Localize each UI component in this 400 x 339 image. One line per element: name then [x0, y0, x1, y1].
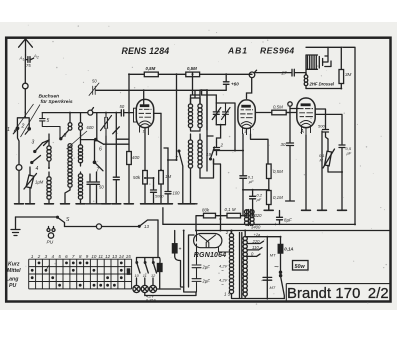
- switch 9: [61, 131, 69, 139]
- svg-text:5000: 5000: [155, 195, 164, 199]
- svg-text:15: 15: [126, 254, 132, 259]
- dial lamp b: [141, 285, 148, 292]
- svg-text:75: 75: [26, 63, 31, 68]
- capacitor 5000: [149, 186, 158, 204]
- svg-text:2: 2: [37, 254, 41, 259]
- svg-text:Buchsen: Buchsen: [39, 94, 60, 100]
- wire V3 plate right: [316, 114, 342, 144]
- matrix col15 dark box: [127, 268, 131, 275]
- svg-text:für Sperrkreis: für Sperrkreis: [41, 99, 73, 105]
- resistor 0.5M horizontal AB1: [256, 112, 296, 114]
- svg-text:~: ~: [274, 263, 279, 272]
- junction circle grid wire: [88, 110, 93, 115]
- switch 13: [139, 220, 158, 227]
- switch 7 left: [95, 140, 104, 171]
- antenna jack circle: [24, 60, 26, 83]
- svg-text:Kurz: Kurz: [8, 262, 20, 268]
- rectifier heater unit RES964: [306, 47, 331, 74]
- tube V3 legs: [302, 126, 311, 135]
- svg-text:+: +: [274, 222, 277, 228]
- coil L1: [43, 140, 52, 168]
- tube V3 RES964 envelope: [297, 98, 315, 128]
- antenna arrow: [19, 39, 33, 55]
- svg-text:13: 13: [144, 224, 149, 229]
- antenna jack bar: [17, 112, 29, 128]
- fuse 0.1A: [278, 244, 283, 253]
- lamp switch c: [153, 262, 157, 285]
- wire top right bus: [306, 47, 355, 224]
- chassis bars overlay: [15, 204, 347, 211]
- capacitor 2 mid: [214, 142, 220, 155]
- svg-text:~: ~: [221, 282, 224, 287]
- switch S: [57, 217, 65, 227]
- resistor 80k: [204, 213, 216, 218]
- ground stub coil L2: [45, 203, 54, 205]
- wire tube cathode down: [144, 129, 146, 171]
- capacitor 5: [40, 113, 60, 138]
- capacitor 30: [286, 106, 295, 201]
- output transformer 320/3400: [245, 210, 255, 226]
- coil L3: [68, 144, 72, 158]
- svg-text:13: 13: [112, 254, 118, 259]
- wire V2 anode top: [247, 78, 252, 99]
- svg-text:220: 220: [252, 239, 261, 244]
- PU jacks: [49, 227, 54, 229]
- IF coil lower pair left: [188, 134, 192, 204]
- capacitor 50 top trimmer: [89, 83, 99, 96]
- electrolytic plus box: [175, 231, 184, 288]
- lamp bottom bus: [140, 289, 196, 296]
- svg-text:50w: 50w: [295, 264, 306, 270]
- title compartment box: [286, 284, 389, 302]
- schematic border frame: [6, 38, 390, 302]
- svg-text:PU: PU: [9, 283, 16, 289]
- RGN1064 filament X: [200, 235, 216, 248]
- switch matrix grid: [29, 259, 132, 289]
- dial lamp a: [133, 285, 140, 292]
- svg-text:9: 9: [64, 133, 67, 139]
- ground stub 400: [124, 203, 133, 205]
- capacitor 50 left b: [94, 172, 100, 204]
- svg-text:500: 500: [318, 124, 325, 129]
- ground stub L6: [76, 203, 85, 205]
- wire y226: [65, 226, 140, 228]
- wire to ground stub: [15, 170, 24, 203]
- coil L4: [65, 158, 72, 204]
- resistor 0.1M vertical: [267, 191, 272, 205]
- jack ticks: [13, 130, 28, 134]
- svg-text:10: 10: [91, 254, 97, 259]
- svg-text:1: 1: [143, 129, 145, 134]
- resistor 0.5M no2: [186, 72, 200, 77]
- resistor 0.5M vertical: [268, 179, 270, 191]
- pointer 600: [67, 131, 88, 149]
- resistor box lamp: [157, 264, 162, 272]
- pointer lines from Buchsen label: [14, 104, 40, 137]
- tube V2 internals: [240, 110, 253, 127]
- switch 6: [81, 113, 104, 145]
- lamp section top rail: [137, 208, 163, 289]
- jack circle left: [16, 165, 22, 171]
- svg-text:1: 1: [7, 127, 10, 133]
- mini coil 9b: [79, 113, 83, 134]
- tube V1 internals: [139, 109, 152, 126]
- wire y112 grid wire: [42, 112, 133, 114]
- wire IF top: [191, 73, 208, 130]
- svg-text:11: 11: [143, 274, 147, 278]
- capacitor 100: [164, 160, 173, 204]
- matrix dots row PU: [58, 284, 116, 287]
- ground stub 0.1M: [264, 205, 273, 210]
- tube V3 internals: [299, 109, 313, 126]
- ground stub L4: [61, 203, 70, 205]
- variable resistor 0.1M diag: [328, 139, 342, 172]
- mains transformer primary winding: [229, 233, 233, 293]
- svg-text:RES964: RES964: [260, 46, 295, 56]
- wire screen bus: [164, 148, 177, 160]
- wire IF bottom link: [191, 90, 214, 178]
- svg-text:2: 2: [220, 143, 224, 148]
- tube V2 AB1 envelope: [238, 100, 255, 129]
- svg-text:3M: 3M: [345, 72, 352, 77]
- transformer top leads: [232, 231, 246, 237]
- trimmer 600: [101, 113, 112, 136]
- wire V3 grid: [287, 109, 300, 113]
- svg-text:µF: µF: [257, 197, 262, 202]
- resistor 400: [128, 113, 130, 204]
- wire grid link AB1: [216, 103, 235, 151]
- wire antenna down: [24, 89, 26, 113]
- choke 2HF coil: [304, 74, 308, 88]
- svg-text:A: A: [300, 129, 305, 135]
- svg-text:2: 2: [21, 124, 25, 130]
- svg-text:14: 14: [119, 254, 125, 259]
- IF coil upper pair left: [188, 95, 192, 130]
- wire y90 grid bus: [96, 90, 226, 104]
- svg-text:30: 30: [281, 142, 286, 147]
- box 50w: [293, 261, 309, 271]
- tube V1 legs: [140, 126, 149, 135]
- capacitor 0.2uF: [250, 190, 256, 216]
- svg-text:RENS 1284: RENS 1284: [122, 46, 170, 56]
- svg-text:4: 4: [36, 166, 39, 172]
- svg-text:2µF: 2µF: [202, 265, 211, 270]
- capacitor 50 grid: [121, 110, 123, 116]
- svg-text:0,1µF: 0,1µF: [248, 175, 254, 184]
- switch 7: [179, 152, 183, 204]
- capacitor 6uF: [339, 145, 345, 210]
- svg-text:100: 100: [173, 191, 181, 196]
- svg-text:+: +: [179, 247, 182, 253]
- resistor 1M mid: [160, 113, 162, 203]
- capacitor 50 left: [87, 174, 93, 204]
- svg-text:110: 110: [252, 245, 259, 250]
- transformer secondary winding: [243, 236, 247, 296]
- matrix dots row Kurz: [38, 262, 123, 265]
- mains taps: [247, 241, 263, 256]
- switch 19: [211, 147, 215, 159]
- svg-text:Brandt 170 2/2: Brandt 170 2/2: [287, 286, 389, 302]
- svg-text:1M: 1M: [165, 174, 171, 179]
- svg-text:0,5M: 0,5M: [146, 66, 156, 71]
- wire x116 down: [112, 113, 121, 204]
- svg-text:50: 50: [99, 185, 104, 190]
- svg-text:Mittel: Mittel: [7, 268, 21, 274]
- p mark Mittel: [45, 269, 48, 272]
- coil L5: [78, 134, 82, 166]
- switch 3: [35, 143, 43, 152]
- wire y230 bus: [196, 230, 389, 232]
- junction circle top AB1: [249, 72, 255, 78]
- capacitor 2uF b: [192, 279, 201, 292]
- svg-text:50: 50: [92, 79, 97, 84]
- ground stub IF: [188, 203, 197, 205]
- capacitor 27: [255, 69, 307, 76]
- svg-text:AB1: AB1: [227, 46, 248, 56]
- svg-text:RGN1064: RGN1064: [194, 252, 227, 259]
- svg-text:8µF: 8µF: [284, 218, 292, 223]
- wire V3 right leg down: [318, 131, 327, 210]
- coil L2: [47, 172, 51, 204]
- svg-text:+2a: +2a: [254, 232, 262, 237]
- capacitor 2uF a: [192, 265, 201, 278]
- IF coil lower pair right: [198, 134, 202, 178]
- wire heater mid tube: [145, 113, 161, 186]
- svg-text:50: 50: [120, 104, 125, 109]
- IF coil upper pair right: [198, 95, 202, 130]
- ground stub c50: [86, 203, 101, 205]
- svg-text:0,1 M: 0,1 M: [225, 207, 236, 212]
- wire y224: [163, 223, 355, 225]
- ground stub 6uF: [338, 209, 347, 211]
- svg-text:0,1M: 0,1M: [273, 195, 283, 200]
- top bus wire: [129, 74, 252, 160]
- svg-text:11: 11: [98, 254, 103, 259]
- svg-text:~: ~: [221, 268, 224, 273]
- tube V2 legs: [243, 127, 251, 135]
- svg-text:400: 400: [132, 155, 140, 160]
- svg-text:PU: PU: [47, 240, 54, 246]
- psu bottom wire: [232, 294, 285, 299]
- svg-text:Lang: Lang: [6, 277, 19, 283]
- wire y188: [243, 189, 269, 191]
- svg-text:50k: 50k: [133, 175, 141, 180]
- wire choke to 3M: [306, 88, 341, 90]
- wire top of coils: [44, 134, 50, 146]
- capacitor 500: [316, 109, 329, 139]
- wire AB1 legs down: [243, 134, 268, 175]
- lamp switch b: [145, 262, 149, 285]
- coil L6: [78, 172, 82, 204]
- wire left psu vertical: [184, 231, 196, 293]
- wire mid bus y150: [214, 150, 243, 152]
- svg-text:0,5µF: 0,5µF: [346, 146, 352, 156]
- wire jack down: [18, 129, 20, 165]
- svg-text:6: 6: [99, 147, 102, 153]
- dial lamp c: [149, 285, 156, 292]
- wire cap2 top: [207, 135, 213, 137]
- RGN1064 leads: [197, 231, 232, 265]
- wire y219: [196, 216, 247, 231]
- capacitor 8uF: [277, 211, 283, 225]
- svg-text:600: 600: [87, 125, 95, 130]
- svg-text:MT: MT: [270, 253, 276, 258]
- variable cap AB1 grid a: [212, 103, 221, 125]
- svg-text:0,1A: 0,1A: [284, 247, 293, 252]
- ground symbol left: [11, 217, 20, 236]
- lamp switch a: [137, 262, 141, 285]
- svg-text:80k: 80k: [202, 208, 210, 213]
- svg-text:1: 1: [244, 129, 246, 134]
- svg-text:12: 12: [105, 254, 111, 259]
- wire switch19 down: [214, 159, 221, 231]
- mains switch: [281, 278, 285, 299]
- resistor 50k: [143, 171, 148, 185]
- svg-text:0,5M: 0,5M: [273, 105, 283, 110]
- scan speckle noise: [16, 25, 387, 305]
- svg-text:0,5M: 0,5M: [187, 66, 197, 71]
- transformer core: [240, 233, 242, 299]
- wire tube top cap: [143, 90, 145, 104]
- variable cap AB1 grid b: [222, 103, 231, 125]
- svg-text:+60: +60: [231, 81, 239, 86]
- matrix dots row Lang: [31, 276, 123, 279]
- svg-text:3400: 3400: [251, 225, 261, 230]
- junction circle mid: [96, 224, 101, 229]
- capacitor +60: [223, 74, 229, 90]
- matrix dots row Mittel: [31, 269, 130, 272]
- svg-text:1µM: 1µM: [35, 180, 44, 185]
- svg-text:0,35A: 0,35A: [146, 299, 156, 303]
- wire V3 cathode down: [302, 135, 311, 210]
- capacitor 75 between A1 A2: [26, 55, 34, 62]
- resistor 0.1M horizontal: [227, 213, 241, 218]
- svg-text:0,5M: 0,5M: [273, 169, 283, 174]
- resistor 3M: [340, 47, 342, 88]
- svg-text:7: 7: [96, 168, 99, 174]
- capacitor MF: [263, 277, 272, 280]
- resistor 0.5M no1: [144, 72, 158, 77]
- rectifier tube RGN1064 envelope: [194, 234, 222, 248]
- tap junction vertical: [245, 237, 280, 299]
- mini coil 9a: [68, 113, 72, 131]
- svg-text:320: 320: [255, 213, 263, 218]
- svg-text:3: 3: [32, 140, 35, 146]
- wire rungs mid: [104, 127, 130, 144]
- tube V1 RENS1284 envelope: [136, 99, 153, 127]
- svg-text:2HF Drossel: 2HF Drossel: [309, 82, 335, 87]
- svg-text:19: 19: [206, 152, 212, 157]
- switch 4: [32, 156, 41, 163]
- wire y217: [16, 216, 58, 218]
- svg-text:2µF: 2µF: [202, 279, 211, 284]
- capacitor 0.1uF: [240, 176, 247, 216]
- variable resistor 1uM: [26, 167, 35, 204]
- svg-text:27: 27: [281, 71, 288, 76]
- svg-text:MT: MT: [270, 285, 276, 290]
